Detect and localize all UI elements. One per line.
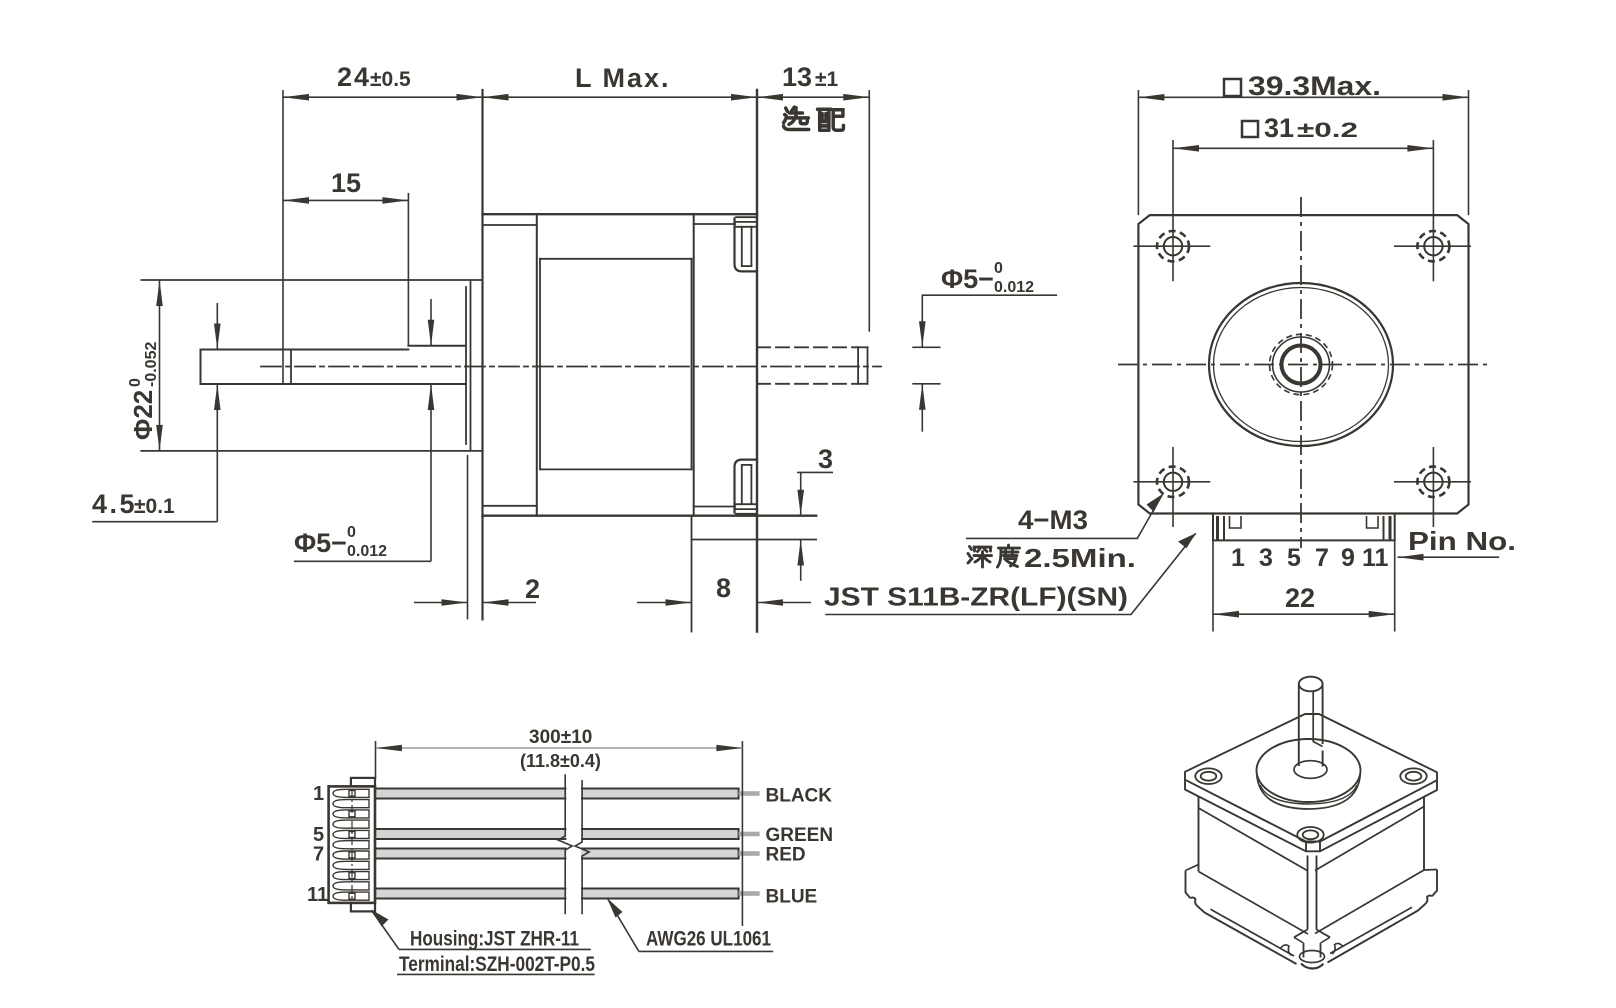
svg-text:11: 11 [1362, 544, 1389, 572]
svg-text:Terminal:SZH-002T-P0.5: Terminal:SZH-002T-P0.5 [399, 953, 595, 976]
svg-text:9: 9 [1341, 544, 1355, 572]
svg-text:5: 5 [1287, 544, 1301, 572]
svg-text:Φ5−: Φ5− [941, 264, 994, 294]
svg-text:±0.1: ±0.1 [134, 495, 175, 518]
svg-text:7: 7 [1315, 544, 1329, 572]
svg-text:±1: ±1 [815, 68, 839, 91]
svg-text:4.5: 4.5 [92, 489, 137, 519]
svg-text:AWG26 UL1061: AWG26 UL1061 [646, 928, 771, 951]
svg-text:0: 0 [994, 260, 1003, 277]
svg-text:2: 2 [525, 574, 540, 604]
svg-text:(11.8±0.4): (11.8±0.4) [520, 751, 601, 771]
svg-text:31: 31 [1264, 113, 1294, 143]
svg-text:0: 0 [347, 524, 356, 541]
svg-text:BLACK: BLACK [766, 786, 833, 807]
svg-text:0.012: 0.012 [347, 543, 387, 560]
svg-text:L Max.: L Max. [575, 63, 671, 93]
svg-text:GREEN: GREEN [766, 825, 834, 846]
svg-text:±0.2: ±0.2 [1297, 119, 1358, 142]
svg-text:RED: RED [766, 845, 806, 866]
svg-text:11: 11 [307, 884, 328, 906]
svg-text:BLUE: BLUE [766, 887, 818, 908]
svg-text:Pin No.: Pin No. [1408, 526, 1516, 556]
svg-text:-0.052: -0.052 [143, 342, 160, 387]
svg-text:22: 22 [1285, 583, 1315, 613]
svg-text:JST S11B-ZR(LF)(SN): JST S11B-ZR(LF)(SN) [824, 582, 1128, 612]
svg-text:4−M3: 4−M3 [1018, 505, 1088, 535]
svg-text:Housing:JST ZHR-11: Housing:JST ZHR-11 [410, 928, 579, 951]
svg-text:±0.5: ±0.5 [370, 68, 411, 91]
svg-text:7: 7 [313, 844, 324, 866]
svg-text:13: 13 [782, 62, 812, 92]
svg-text:1: 1 [313, 783, 324, 805]
svg-text:Φ22: Φ22 [128, 390, 158, 440]
svg-text:0: 0 [127, 378, 144, 387]
svg-text:2.5Min.: 2.5Min. [1024, 543, 1136, 573]
svg-text:39.3Max.: 39.3Max. [1248, 71, 1381, 101]
svg-text:300±10: 300±10 [529, 727, 592, 748]
svg-text:8: 8 [716, 573, 731, 603]
svg-text:0.012: 0.012 [994, 279, 1034, 296]
svg-text:15: 15 [331, 168, 361, 198]
svg-text:24: 24 [337, 62, 371, 92]
svg-text:3: 3 [1259, 544, 1273, 572]
svg-text:Φ5−: Φ5− [294, 528, 347, 558]
svg-text:1: 1 [1231, 544, 1245, 572]
svg-text:3: 3 [818, 444, 833, 474]
